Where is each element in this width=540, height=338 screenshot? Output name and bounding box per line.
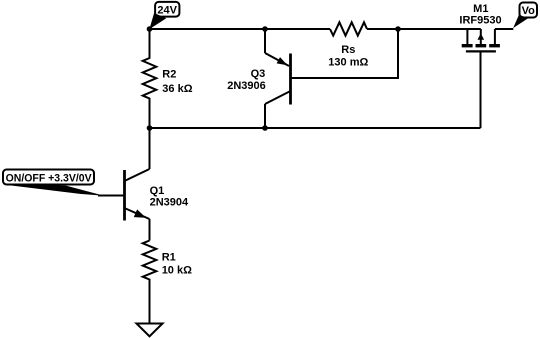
- wire Q3 emitter lead from top rail: [264, 29, 266, 53]
- M1 channel bar right: [489, 44, 500, 47]
- svg-text:130 mΩ: 130 mΩ: [328, 56, 368, 68]
- label R2 value: [162, 68, 192, 95]
- svg-text:Q3: Q3: [251, 68, 266, 80]
- ground: [137, 324, 163, 337]
- node 24V rail junction: [147, 26, 153, 32]
- wire lower rail (gate drive net): [150, 127, 481, 129]
- Q1 emitter arrowhead: [134, 209, 146, 217]
- svg-text:2N3904: 2N3904: [150, 196, 189, 208]
- transistor Q1 NPN: [125, 169, 150, 221]
- net label 24V flag: [149, 2, 179, 29]
- resistor R1 with bottom lead: [143, 241, 157, 324]
- Q1 base bar: [123, 170, 126, 221]
- net label Vo flag: [513, 3, 537, 29]
- label M1: [459, 3, 501, 27]
- Q3 emitter diagonal: [265, 53, 289, 66]
- svg-text:24V: 24V: [157, 4, 177, 16]
- svg-text:2N3906: 2N3906: [227, 80, 266, 92]
- resistor Rs: [330, 22, 367, 35]
- svg-text:Vo: Vo: [522, 5, 536, 17]
- transistor M1 P-MOSFET: [462, 29, 500, 51]
- wire left rail down to Q1 collector: [149, 128, 151, 169]
- node Q3 collector junction: [262, 125, 268, 131]
- svg-text:R2: R2: [162, 68, 176, 80]
- label Q1: [150, 185, 189, 208]
- wire ON/OFF to Q1 base: [98, 195, 125, 197]
- svg-text:M1: M1: [473, 3, 488, 15]
- M1 drain lead: [494, 29, 496, 44]
- svg-text:ON/OFF +3.3V/0V: ON/OFF +3.3V/0V: [6, 172, 93, 184]
- wire Q1 emitter to R1: [149, 219, 151, 241]
- wire M1 gate lead down to lower rail: [480, 51, 482, 128]
- wire top rail from 24V node to Rs left: [150, 28, 331, 30]
- resistor R2 with leads: [143, 29, 157, 128]
- wire Q3 base to Rs right node: [292, 29, 399, 78]
- M1 source lead: [466, 29, 468, 44]
- Q1 collector diagonal: [126, 169, 150, 181]
- transistor Q3 PNP: [265, 29, 291, 128]
- svg-text:36 kΩ: 36 kΩ: [162, 83, 192, 95]
- node Rs right / Q3 base junction: [395, 26, 401, 32]
- M1 channel bar left: [462, 44, 473, 47]
- M1 body connection with arrow: [480, 29, 482, 44]
- Q1 emitter diagonal: [126, 209, 150, 220]
- Q3 collector diagonal: [265, 91, 291, 104]
- label Rs value: [328, 44, 368, 68]
- svg-text:IRF9530: IRF9530: [459, 15, 501, 27]
- Q3 base bar: [289, 54, 292, 105]
- M1 gate plate: [466, 50, 496, 52]
- M1 channel bar middle: [476, 44, 487, 47]
- node left rail / lower rail junction: [147, 125, 153, 131]
- wire top rail from Rs right to M1: [367, 28, 481, 30]
- label R1 value: [162, 252, 192, 277]
- wire M1 drain to Vo: [495, 28, 513, 30]
- net label ON/OFF flag: [3, 170, 104, 196]
- wire Q3 collector lead down: [264, 104, 266, 128]
- node Q3 emitter junction: [262, 26, 268, 32]
- svg-text:R1: R1: [162, 252, 176, 264]
- svg-text:10 kΩ: 10 kΩ: [162, 264, 192, 276]
- label Q3: [227, 68, 266, 92]
- svg-text:Rs: Rs: [341, 44, 355, 56]
- Q3 emitter arrowhead: [277, 57, 288, 65]
